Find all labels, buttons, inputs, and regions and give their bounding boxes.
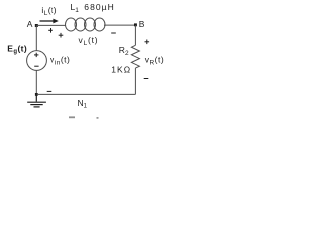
wire right: node B down to resistor (134, 25, 136, 45)
svg-text:vin(t): vin(t) (50, 55, 70, 67)
svg-text:vR(t): vR(t) (145, 55, 164, 67)
vin plus sign (48, 28, 53, 33)
svg-text:R2: R2 (119, 45, 129, 57)
wire top: inductor to node B (104, 24, 135, 26)
vR minus sign (144, 78, 149, 80)
svg-text:680µH: 680µH (84, 2, 114, 12)
wire bottom: ground node to right corner (36, 93, 135, 95)
vL minus sign (111, 32, 116, 34)
svg-text:iL(t): iL(t) (41, 5, 57, 17)
inductor L1 coil loops (66, 18, 106, 31)
voltage source Eg circle (27, 51, 47, 71)
svg-text:B: B (139, 19, 145, 29)
vL plus sign (59, 33, 64, 38)
wire left: node A down to source top (35, 25, 37, 50)
ground symbol (27, 94, 46, 107)
svg-text:A: A (27, 19, 33, 29)
source minus sign (34, 65, 38, 67)
node A junction dot (35, 24, 38, 27)
svg-text:Eg(t): Eg(t) (7, 44, 27, 56)
svg-text:L1: L1 (71, 2, 80, 14)
wire right: resistor down to bottom corner (134, 68, 136, 94)
svg-text:1KΩ: 1KΩ (111, 65, 131, 75)
current arrow iL(t) (40, 19, 59, 24)
node B junction dot (134, 23, 137, 26)
svg-text:vL(t): vL(t) (79, 35, 99, 47)
wire left: source bottom down to ground node (35, 70, 37, 94)
svg-text:N1: N1 (78, 98, 88, 110)
source plus sign (34, 53, 38, 57)
wire top: node A to inductor (36, 24, 66, 26)
resistor R2 zigzag (131, 45, 139, 68)
clipped figure caption sliver (69, 116, 99, 118)
ground junction dot (35, 93, 38, 96)
vR plus sign (145, 40, 150, 45)
vin minus sign (47, 90, 52, 92)
